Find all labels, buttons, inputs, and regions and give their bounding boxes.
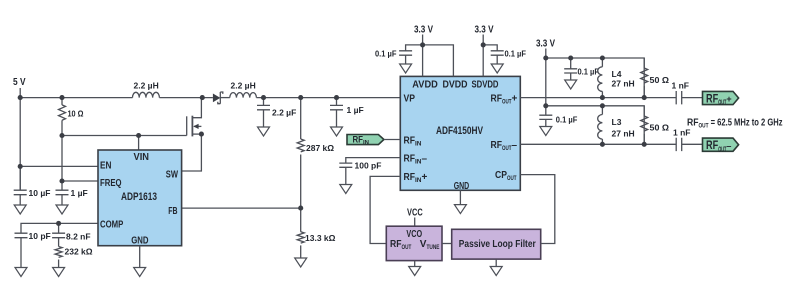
svg-text:1 µF: 1 µF [71,188,88,198]
svg-text:27 nH: 27 nH [612,129,635,139]
svg-text:10 pF: 10 pF [29,231,51,241]
svg-text:8.2 nF: 8.2 nF [66,232,91,242]
svg-text:3.3 V: 3.3 V [536,38,555,49]
svg-text:0.1 µF: 0.1 µF [505,49,527,59]
svg-text:1 nF: 1 nF [672,81,689,91]
svg-text:FREQ: FREQ [100,178,122,189]
svg-text:0.1 µF: 0.1 µF [375,49,397,59]
svg-text:3.3 V: 3.3 V [475,25,494,36]
svg-text:GND: GND [131,235,148,246]
svg-text:3.3 V: 3.3 V [414,25,433,36]
svg-text:VP: VP [404,93,416,104]
svg-text:27 nH: 27 nH [612,79,635,89]
svg-text:2.2 µH: 2.2 µH [231,80,256,90]
svg-text:ADF4150HV: ADF4150HV [436,125,483,137]
svg-text:1 µF: 1 µF [347,105,364,115]
svg-text:50 Ω: 50 Ω [650,75,670,85]
svg-text:0.1 µF: 0.1 µF [556,115,578,125]
svg-text:ADP1613: ADP1613 [121,191,157,203]
svg-text:L3: L3 [612,117,622,127]
svg-text:EN: EN [100,161,112,172]
svg-text:50 Ω: 50 Ω [650,123,670,133]
svg-text:287 kΩ: 287 kΩ [306,143,334,153]
svg-text:1 nF: 1 nF [673,128,690,138]
svg-text:13.3 kΩ: 13.3 kΩ [305,233,336,243]
svg-text:2.2 µF: 2.2 µF [272,108,296,118]
svg-text:5 V: 5 V [13,77,26,88]
svg-text:Passive Loop Filter: Passive Loop Filter [459,239,536,250]
svg-text:SW: SW [166,169,179,180]
svg-text:VCC: VCC [407,208,423,219]
svg-text:SDVDD: SDVDD [472,80,499,91]
svg-text:L4: L4 [612,69,622,79]
svg-text:DVDD: DVDD [443,80,468,91]
svg-text:10 Ω: 10 Ω [68,109,84,119]
svg-text:100 pF: 100 pF [355,161,382,171]
svg-text:GND: GND [454,181,470,192]
svg-text:COMP: COMP [100,220,124,231]
svg-text:10 µF: 10 µF [29,188,51,198]
svg-text:AVDD: AVDD [412,80,438,91]
svg-text:0.1 µF: 0.1 µF [578,67,600,77]
svg-text:232 kΩ: 232 kΩ [65,247,93,257]
svg-text:FB: FB [168,206,177,217]
svg-text:2.2 µH: 2.2 µH [134,80,159,90]
svg-text:VIN: VIN [134,152,150,163]
